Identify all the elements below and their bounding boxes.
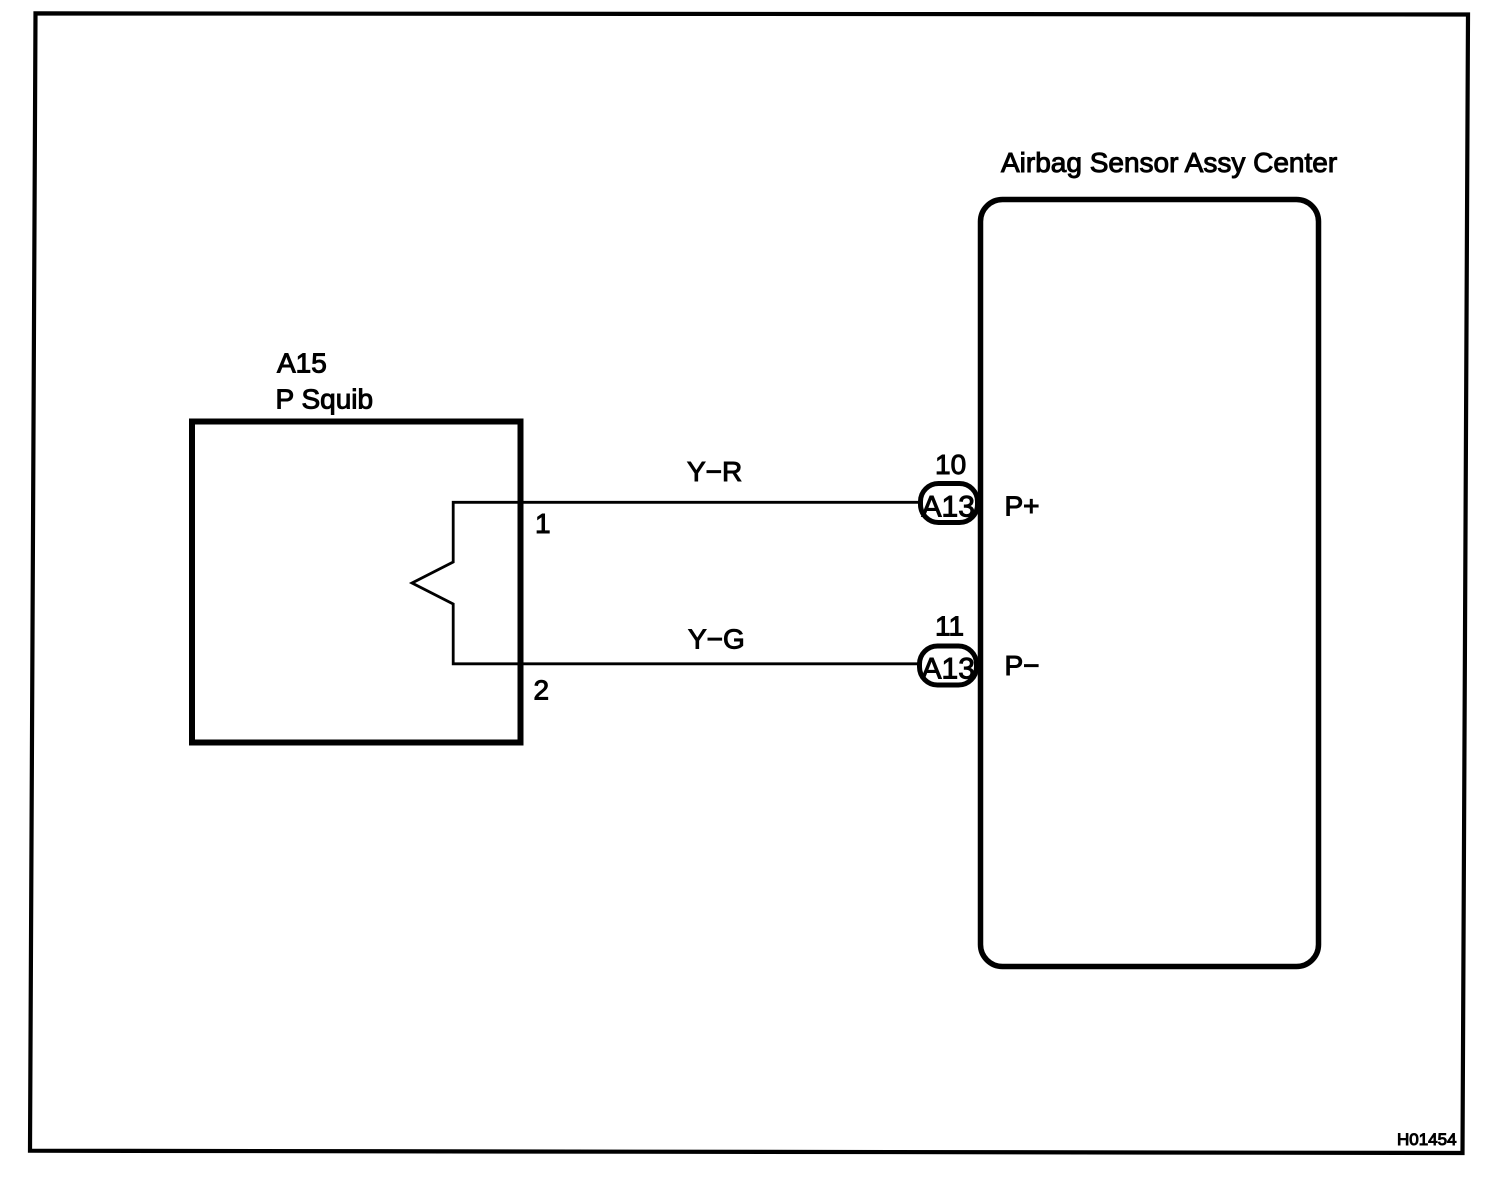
svg-text:H01454: H01454 xyxy=(1397,1130,1457,1149)
svg-text:Y−G: Y−G xyxy=(688,624,745,655)
svg-text:P Squib: P Squib xyxy=(276,384,374,415)
svg-text:Y−R: Y−R xyxy=(687,456,742,487)
svg-text:P+: P+ xyxy=(1005,491,1040,522)
connector oval A13 pin 10 xyxy=(921,484,978,523)
svg-text:2: 2 xyxy=(534,675,550,706)
connector A15 P Squib box xyxy=(192,422,521,743)
svg-text:A15: A15 xyxy=(277,348,327,379)
svg-text:11: 11 xyxy=(935,611,964,642)
wire Y-R pin1 to A13-10 with squib element notch xyxy=(412,502,919,664)
svg-text:P−: P− xyxy=(1005,650,1040,681)
svg-text:A13: A13 xyxy=(922,653,975,686)
svg-text:Airbag Sensor Assy Center: Airbag Sensor Assy Center xyxy=(1001,147,1337,178)
Airbag Sensor Assy Center box U1 xyxy=(981,200,1319,967)
svg-text:A13: A13 xyxy=(922,491,975,524)
connector oval A13 pin 11 xyxy=(920,646,977,685)
svg-text:1: 1 xyxy=(535,508,551,539)
svg-text:10: 10 xyxy=(935,449,966,480)
